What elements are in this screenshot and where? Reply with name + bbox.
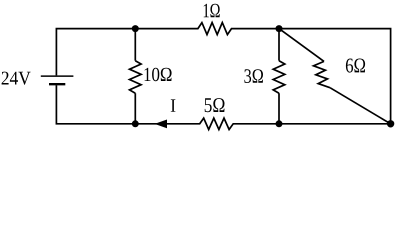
resistor R2 10-ohm (vertical zigzag)	[130, 61, 142, 93]
wire diagonal lower (R5 to bottom-right corner)	[330, 88, 391, 124]
battery V1 long plate (+)	[41, 75, 74, 77]
label I current	[171, 99, 176, 111]
junction dot bottom-right corner (R5 return)	[387, 120, 394, 127]
current direction arrow (points left)	[155, 120, 167, 129]
junction dot top node (R1/R3/R5)	[276, 25, 283, 32]
wire 10-ohm branch upper	[134, 29, 136, 61]
wire 10-ohm branch lower	[134, 93, 136, 124]
junction dot bottom of 10-ohm branch	[132, 120, 139, 127]
wire diagonal upper (top node to R5)	[279, 29, 324, 62]
resistor R3 3-ohm (vertical zigzag)	[273, 61, 285, 93]
label 3-ohm value (resistor R3)	[244, 69, 263, 83]
wire: left rail lower, bottom wire (R4 inline) to bottom-right corner	[56, 85, 390, 129]
junction dot bottom of 3-ohm branch	[276, 120, 283, 127]
battery V1 short plate (-)	[49, 83, 65, 85]
label 24V source value	[2, 72, 31, 85]
label 10-ohm value (resistor R2)	[145, 68, 172, 82]
wire 3-ohm branch lower	[278, 93, 280, 124]
label 6-ohm value (resistor R5)	[346, 59, 365, 73]
resistor R5 6-ohm (diagonal zigzag)	[314, 61, 331, 87]
label 1-ohm value (resistor R1)	[204, 4, 220, 18]
junction dot top of 10-ohm branch	[132, 25, 139, 32]
wire 3-ohm branch upper	[278, 29, 280, 61]
wire: left rail upper, top wire (R1 inline), right rail	[56, 23, 390, 124]
label 5-ohm value (resistor R4)	[205, 98, 225, 112]
